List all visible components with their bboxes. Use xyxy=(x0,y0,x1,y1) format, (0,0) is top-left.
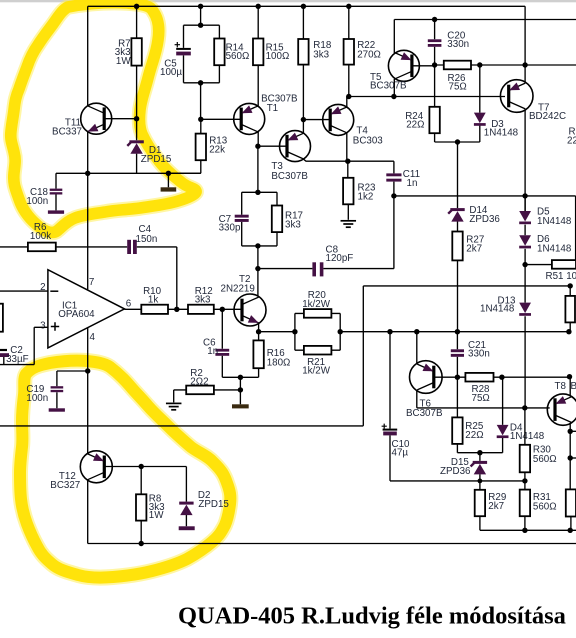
ground bar under D1 row xyxy=(161,173,177,191)
wire T1 collector node down to C7 loop xyxy=(257,146,259,192)
svg-text:6: 6 xyxy=(126,299,132,310)
wire C5 loop bottom to T1 base node xyxy=(200,83,202,120)
node rail end / right resistor xyxy=(566,329,571,334)
svg-text:560Ω: 560Ω xyxy=(533,454,557,465)
svg-text:BC337: BC337 xyxy=(52,127,82,138)
node R18 / T4 base / T3 emitter xyxy=(301,117,306,122)
zener diode D14 ZPD36 xyxy=(448,142,464,232)
wire T8 emitter up to R28 row xyxy=(569,377,571,397)
node top rail / R15 xyxy=(256,4,261,9)
wire T4 base wire xyxy=(303,119,330,121)
node T1 base / R13 / C5 loop xyxy=(198,117,203,122)
node top rail / R22 xyxy=(346,4,351,9)
svg-text:4: 4 xyxy=(90,332,96,343)
node ground stub on row xyxy=(166,171,171,176)
resistor R32 clipped at right edge xyxy=(566,489,576,530)
node top rail / R7 xyxy=(134,4,139,9)
wire C7/R17 parallel loop xyxy=(242,192,277,246)
wire T6 base to node xyxy=(434,376,458,378)
yellow highlighter loop around T11 / R7 / D1 current-source region xyxy=(11,3,196,233)
resistor R25 xyxy=(452,377,502,453)
wire T5 emitter feed upper-right xyxy=(394,20,576,54)
node T8 collector junction xyxy=(568,429,573,434)
capacitor C19 100n xyxy=(49,371,88,412)
resistor R31 xyxy=(520,481,530,530)
node R23 / T4 collector / T3 collector xyxy=(345,159,350,164)
node R12 / C6 / T2 base xyxy=(220,307,225,312)
wire T6 emitter up to output rail xyxy=(416,332,418,364)
svg-text:7: 7 xyxy=(89,277,94,288)
wire T5 collector down xyxy=(393,79,395,97)
transistor T5 BC307B xyxy=(388,50,419,81)
wire T3 collector row to C11 xyxy=(304,159,394,161)
node pin4 / C19 xyxy=(85,368,90,373)
resistor R2 xyxy=(174,386,241,403)
resistor R27 xyxy=(452,232,462,332)
resistor R23 xyxy=(343,161,353,220)
diode D4 1N4148 xyxy=(497,377,509,453)
node R30 bottom / C10 row xyxy=(522,478,527,483)
node C6 / R16 junction xyxy=(238,375,243,380)
svg-text:2: 2 xyxy=(40,282,45,293)
svg-text:1k/2W: 1k/2W xyxy=(302,299,331,310)
svg-text:3k3: 3k3 xyxy=(195,295,211,306)
resistor R30 xyxy=(520,408,530,481)
svg-text:BC307B: BC307B xyxy=(406,408,443,419)
svg-text:150n: 150n xyxy=(136,234,158,245)
resistor R10 xyxy=(141,305,188,314)
node C20 top junction xyxy=(432,17,437,22)
svg-text:R272k7: R272k7 xyxy=(466,234,484,254)
svg-text:2Ω2: 2Ω2 xyxy=(190,377,208,388)
svg-text:R1322k: R1322k xyxy=(209,135,228,155)
node output rail / R20 R21 right xyxy=(338,329,343,334)
wire non-inverting input pin3 xyxy=(0,327,48,364)
node T5 collector on base rail xyxy=(391,94,396,99)
node bus / clamp row xyxy=(522,193,527,198)
wire op-amp output pin6 xyxy=(125,308,142,310)
node C5 loop bottom xyxy=(198,80,203,85)
svg-text:120pF: 120pF xyxy=(326,253,354,264)
node R25 / D4 / D15 xyxy=(477,450,482,455)
diode D3 1N4148 xyxy=(474,65,486,142)
node C21 / T6 base / R28 / R25 xyxy=(455,375,460,380)
wire stub right from lower node xyxy=(570,457,576,459)
wire T12 emitter down to negative rail xyxy=(87,480,89,543)
svg-text:T8: T8 xyxy=(555,381,567,392)
svg-text:75Ω: 75Ω xyxy=(472,393,490,404)
wire pin4 down through to T12 collector xyxy=(87,327,89,453)
svg-text:3: 3 xyxy=(40,320,46,331)
wire C7 loop bottom to C8 node xyxy=(257,246,259,269)
wire T8 collector down xyxy=(569,423,571,489)
svg-text:1N4148: 1N4148 xyxy=(537,244,572,255)
svg-text:BC307B: BC307B xyxy=(370,80,407,91)
node R28 right / D4 xyxy=(499,375,504,380)
svg-text:QUAD-405 R.Ludvig féle módosít: QUAD-405 R.Ludvig féle módosítása xyxy=(178,603,566,630)
wire T3 base from T1 collector node xyxy=(258,145,287,147)
node right edge junction xyxy=(568,455,573,460)
svg-text:R183k3: R183k3 xyxy=(313,40,332,61)
svg-text:1N4148: 1N4148 xyxy=(484,128,519,139)
wire clamp row to right edge xyxy=(394,196,576,265)
svg-text:1k/2W: 1k/2W xyxy=(302,366,331,377)
capacitor C10 47u electrolytic xyxy=(382,332,398,481)
svg-text:R73k31W: R73k31W xyxy=(115,39,132,67)
op-amp IC1 OPA604 triangle xyxy=(48,270,125,348)
capacitor C21 330n xyxy=(451,332,464,378)
resistor R6 on input wire xyxy=(0,243,127,252)
opamp plus sign xyxy=(51,322,59,330)
wire T6 collector down and right to T8 base xyxy=(417,390,550,408)
svg-text:330n: 330n xyxy=(468,349,490,360)
svg-text:ZPD15: ZPD15 xyxy=(141,154,172,165)
svg-text:100µ: 100µ xyxy=(160,67,182,78)
resistor R26 xyxy=(444,61,471,70)
node C7 loop top xyxy=(255,190,260,195)
node R8 bottom on negative rail xyxy=(139,541,144,546)
node output rail / R20 R21 left xyxy=(292,329,297,334)
svg-text:1N4148: 1N4148 xyxy=(480,304,515,315)
node T11 emitter / C18 / D1 ground row xyxy=(85,171,90,176)
zener diode D1 ZPD15 xyxy=(127,119,143,174)
transistor T12 BC327 xyxy=(80,451,112,483)
capacitor C8 120pF xyxy=(258,196,394,277)
resistor R22 xyxy=(344,6,354,96)
zener diode D15 ZPD36 xyxy=(471,453,488,490)
svg-text:BC307B: BC307B xyxy=(271,171,308,182)
svg-text:1N4148: 1N4148 xyxy=(510,431,545,442)
wire T2 collector up xyxy=(257,269,259,297)
wire T3 emitter up xyxy=(302,120,304,134)
svg-text:R2675Ω: R2675Ω xyxy=(448,73,467,92)
node bus / R26 row xyxy=(522,62,527,67)
transistor T6 BC307B xyxy=(410,361,443,394)
resistor at right edge between feedback row and output rail xyxy=(565,286,575,332)
wire T11 collector from top rail xyxy=(87,6,89,106)
svg-text:1n: 1n xyxy=(407,178,418,189)
transistor T2 2N2219 xyxy=(234,294,266,326)
svg-text:2N2219: 2N2219 xyxy=(221,283,255,294)
resistor R20 xyxy=(295,309,340,350)
transistor T7 BD242C xyxy=(500,80,533,113)
wire ground node row under T11 xyxy=(88,172,201,174)
capacitor C18 100n xyxy=(48,173,88,213)
diode D5 1N4148 xyxy=(519,196,531,235)
resistor R12 xyxy=(188,305,241,314)
svg-text:100n: 100n xyxy=(26,393,48,404)
ground symbol under R2 left xyxy=(166,402,182,404)
wire output rail xyxy=(259,331,569,333)
node C8 / T2 collector xyxy=(255,266,260,271)
node R26 right / D3 xyxy=(477,62,482,67)
svg-text:T1: T1 xyxy=(267,103,278,114)
resistor R21 xyxy=(295,346,340,355)
diode D13 1N4148 xyxy=(519,265,531,408)
resistor R1 clipped at left edge xyxy=(0,304,3,332)
node feedback row right end xyxy=(568,283,573,288)
svg-text:BD242C: BD242C xyxy=(529,111,566,122)
svg-text:100n: 100n xyxy=(26,196,48,207)
transistor T11 BC337 xyxy=(81,103,112,134)
svg-text:OPA604: OPA604 xyxy=(58,309,95,320)
wire right supply bus down right side xyxy=(524,6,526,211)
node top rail / R18 xyxy=(301,4,306,9)
svg-text:330n: 330n xyxy=(447,39,469,50)
wire R26 row xyxy=(435,61,576,65)
wire positive supply top rail xyxy=(88,5,525,7)
wire feedback row to right xyxy=(363,285,570,287)
resistor R28 xyxy=(457,373,569,382)
node T8 emitter / R28 row end xyxy=(567,374,572,379)
node R2 right junction xyxy=(238,387,243,392)
wire inverting input from left edge xyxy=(0,290,48,292)
transistor T1 BC307B xyxy=(234,103,265,134)
node output rail / T6 emitter xyxy=(414,329,419,334)
svg-text:33µF: 33µF xyxy=(6,354,29,365)
wire C10 row to R30 bottom xyxy=(390,480,525,482)
node top rail / C5 branch xyxy=(198,4,203,9)
wire R24 feed crossing base rail xyxy=(434,65,436,107)
svg-text:R2422Ω: R2422Ω xyxy=(405,111,424,130)
svg-text:R173k3: R173k3 xyxy=(285,211,303,231)
node R7 / T11 base / D1 xyxy=(134,116,139,121)
diode D6 1N4148 xyxy=(519,235,531,264)
node T2 emitter / R16 / output rail xyxy=(256,329,261,334)
ground bar under C6/R16 node xyxy=(232,404,249,408)
node R32 bottom row xyxy=(568,528,573,533)
svg-text:100k: 100k xyxy=(30,231,51,242)
resistor R17 xyxy=(272,206,282,233)
wire C5/R14 parallel loop xyxy=(184,25,220,83)
wire pin7 positive supply into op-amp xyxy=(87,173,89,289)
svg-text:22Ω: 22Ω xyxy=(465,430,483,441)
node C20 / R26 / T5 base xyxy=(432,62,437,67)
node R22 / T4 emitter / base rail xyxy=(346,94,351,99)
node T12 base / R8 / D2 row xyxy=(139,464,144,469)
wire negative rail bottom xyxy=(88,543,576,545)
svg-text:1N4148: 1N4148 xyxy=(537,216,572,227)
transistor T4 BC303 xyxy=(323,104,354,135)
capacitor C20 330n xyxy=(428,20,442,61)
resistor R29 xyxy=(475,490,576,531)
capacitor C4 150n xyxy=(127,240,177,309)
resistor R7 xyxy=(131,6,141,118)
wire node down to R2 row xyxy=(239,377,241,404)
wire T11 emitter down to ground node xyxy=(87,132,89,174)
svg-text:R231k2: R231k2 xyxy=(358,182,377,202)
node C7 loop bottom xyxy=(255,243,260,248)
ground symbol under R23 xyxy=(341,220,357,222)
node output rail / C21 xyxy=(455,329,460,334)
capacitor C6 1n xyxy=(215,309,240,377)
transistor T8 BD246 xyxy=(547,394,576,425)
resistor R51 xyxy=(525,260,576,269)
svg-text:1k: 1k xyxy=(148,295,158,306)
svg-text:330p: 330p xyxy=(219,222,241,233)
resistor R15 xyxy=(253,6,263,106)
svg-text:ZPD36: ZPD36 xyxy=(469,214,500,225)
wire T1 base from node xyxy=(201,118,241,120)
svg-text:R522: R522 xyxy=(567,127,576,147)
node R24 / D14 branch xyxy=(455,139,460,144)
resistor R8 xyxy=(136,467,146,544)
opamp minus sign xyxy=(50,290,58,292)
resistor R14 xyxy=(214,39,224,66)
zener diode D2 ZPD15 xyxy=(179,467,195,531)
node D15 / R29 / C10 row xyxy=(478,479,483,484)
node R31 bottom row xyxy=(522,528,527,533)
transistor T3 BC307B xyxy=(280,131,311,162)
node D6 / R51 / D13 xyxy=(522,262,527,267)
wire T2 emitter down xyxy=(258,324,260,332)
svg-text:R51 100: R51 100 xyxy=(546,271,576,282)
resistor R16 xyxy=(240,332,263,378)
yellow highlighter loop around T12 / R8 / D2 current-source region xyxy=(20,361,230,578)
wire T5 base to C20 node xyxy=(412,65,435,67)
wire T4 emitter up to R22 node xyxy=(346,97,348,108)
wire driver base rail to T7 xyxy=(349,96,505,98)
wire T11 base to R7/D1 node xyxy=(104,118,136,120)
capacitor C7 330p xyxy=(235,215,249,218)
svg-text:560Ω: 560Ω xyxy=(533,502,557,513)
svg-text:2k7: 2k7 xyxy=(488,501,504,512)
resistor R18 xyxy=(298,6,308,119)
wire T4 collector down to R23 node xyxy=(346,133,348,161)
wire stub right from collector node xyxy=(570,430,576,432)
wire C5 loop feed from rail xyxy=(200,6,202,25)
wire mid rail xyxy=(0,286,363,426)
svg-text:BC327: BC327 xyxy=(50,480,80,491)
capacitor C2 33uF clipped at left edge xyxy=(0,349,9,365)
wire T1 collector down to T3 base node xyxy=(257,132,259,146)
svg-text:BC303: BC303 xyxy=(353,135,384,146)
svg-text:B: B xyxy=(571,381,576,392)
svg-text:ZPD36: ZPD36 xyxy=(440,466,471,477)
resistor R13 xyxy=(168,119,206,173)
node C5 loop top xyxy=(198,23,203,28)
svg-text:47µ: 47µ xyxy=(392,447,409,458)
node T3 base / T1 collector xyxy=(255,144,260,149)
wire T12 base row to D2 xyxy=(104,466,186,468)
node C11 bottom / clamp row xyxy=(391,193,396,198)
svg-text:1n: 1n xyxy=(207,346,218,357)
node T8 base / R30 feed xyxy=(522,405,527,410)
capacitor C11 1n xyxy=(386,161,401,196)
svg-text:ZPD15: ZPD15 xyxy=(198,499,229,510)
node output rail / C10 xyxy=(387,329,392,334)
capacitor C5 100u electrolytic xyxy=(175,42,191,55)
node R10 / R12 / feedback xyxy=(174,307,179,312)
resistor R24 xyxy=(429,107,479,142)
